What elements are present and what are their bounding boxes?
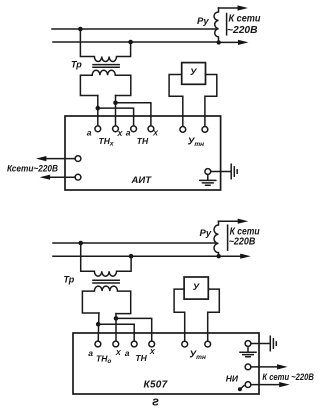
svg-text:Ру: Ру: [197, 16, 209, 27]
terminal а (ТН): [131, 126, 137, 132]
svg-text:Х: Х: [116, 129, 123, 138]
wire secondary end to terminal а: [97, 96, 99, 127]
Ру core bar: [226, 14, 228, 35]
transformer Тр primary: [81, 243, 131, 276]
wire tap to ТН а terminal: [98, 324, 134, 341]
ground symbol inside К507: [240, 346, 256, 356]
switch contact dot: [238, 387, 242, 391]
arrow НИ upper to mains: [251, 366, 279, 368]
svg-text:Ру: Ру: [200, 228, 212, 239]
terminal НИ lower: [245, 382, 251, 388]
transformer Тр core: [93, 64, 119, 66]
wire L2 bottom mains: [53, 41, 219, 43]
node tap upper: [113, 101, 118, 106]
node tap upper: [114, 316, 119, 321]
terminal НИ upper: [245, 364, 251, 370]
wire tap to ТН Х terminal: [116, 103, 151, 126]
arrow mains left lower: [49, 176, 76, 178]
wire L1 top mains: [52, 28, 216, 30]
terminal а (ТНх): [95, 126, 101, 132]
terminal mains left upper: [75, 156, 81, 162]
svg-text:~220В: ~220В: [227, 25, 258, 36]
wire secondary end to terminal Х: [115, 96, 117, 127]
transformer Тр core: [93, 279, 119, 281]
transformer Тр secondary: [80, 70, 130, 95]
terminal Х (ТНх): [113, 126, 119, 132]
op-amp/regulator У box: [182, 63, 206, 85]
svg-text:Х: Х: [152, 128, 159, 137]
svg-text:НИ: НИ: [226, 373, 239, 383]
transformer Тр primary: [80, 29, 130, 62]
arrow to mains top: [219, 7, 240, 9]
terminal а (ТН): [131, 341, 137, 347]
terminal а (ТНо): [95, 341, 101, 347]
svg-text:К507: К507: [144, 379, 168, 390]
svg-text:Тр: Тр: [64, 275, 75, 285]
wire tap to ТН а terminal: [98, 108, 134, 126]
node L2-regulator: [217, 254, 221, 258]
node L2-transformer: [128, 40, 133, 45]
transformer Тр secondary: [82, 286, 130, 314]
svg-text:Х: Х: [149, 347, 156, 356]
arrow mains left upper: [45, 158, 75, 160]
autotransformer Ру winding: [214, 221, 219, 256]
svg-text:а: а: [126, 128, 131, 138]
svg-text:Тр: Тр: [71, 60, 82, 70]
ground symbol inside АИТ: [200, 174, 216, 185]
chassis ground symbol right: [231, 164, 237, 179]
autotransformer Ру winding: [214, 8, 219, 42]
arrow to mains top: [219, 220, 240, 222]
svg-text:К сети ~220В: К сети ~220В: [262, 372, 314, 382]
svg-text:Х: Х: [115, 348, 122, 357]
terminal Утн right: [202, 126, 208, 132]
arrow to mains bottom: [219, 255, 242, 257]
wire to chassis ground: [211, 171, 231, 173]
wire У left lead: [169, 75, 183, 127]
node tap lower: [96, 322, 101, 327]
svg-text:а: а: [87, 128, 92, 138]
node tap lower: [96, 106, 101, 111]
svg-text:К сети: К сети: [229, 13, 261, 24]
node L2-transformer: [129, 254, 134, 259]
svg-text:а: а: [88, 348, 93, 358]
node L1-transformer: [78, 27, 83, 32]
svg-text:ТН: ТН: [135, 353, 147, 363]
svg-text:~220В: ~220В: [229, 236, 256, 247]
terminal Х (ТН): [149, 341, 155, 347]
arrow НИ lower to mains: [251, 384, 281, 386]
terminal Утн right: [205, 341, 211, 347]
wire У right lead: [205, 75, 217, 127]
arrow to mains bottom: [219, 41, 240, 43]
node L1-transformer: [78, 241, 83, 246]
svg-text:Ксети~220В: Ксети~220В: [7, 164, 58, 174]
device box К507: [73, 333, 259, 394]
svg-text:ТН: ТН: [137, 136, 149, 146]
terminal Утн left: [182, 341, 188, 347]
chassis ground symbol right: [270, 336, 276, 351]
wire secondary end to terminal а: [97, 313, 100, 341]
terminal Х (ТН): [148, 126, 154, 132]
wire L2 bottom mains: [53, 255, 219, 257]
device box АИТ: [65, 116, 221, 190]
wire L1 top mains: [53, 242, 216, 244]
wire tap to ТН Х terminal: [116, 318, 152, 341]
terminal Х (ТНо): [113, 341, 119, 347]
terminal Утн left: [180, 126, 186, 132]
wire to chassis ground: [251, 343, 269, 345]
wire secondary end to terminal Х: [115, 314, 117, 342]
node L2-regulator: [217, 40, 221, 44]
terminal ground К507: [245, 341, 251, 347]
op-amp/regulator У box: [184, 277, 208, 299]
svg-text:г: г: [152, 395, 159, 409]
terminal ground АИТ: [205, 169, 211, 175]
Ру core bar: [227, 225, 229, 250]
wire У left lead: [174, 289, 185, 341]
svg-text:а: а: [125, 348, 130, 358]
terminal mains left lower: [75, 174, 81, 180]
wire У right lead: [208, 289, 220, 341]
svg-text:АИТ: АИТ: [131, 175, 153, 186]
